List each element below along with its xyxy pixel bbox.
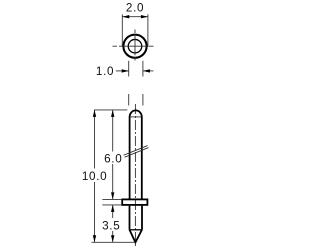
svg-text:6.0: 6.0: [104, 152, 122, 165]
dim 3.5 arrowhead top: [111, 205, 114, 212]
dim 10.0 label background: [83, 169, 107, 183]
cone tip: [130, 230, 142, 243]
extension line pin top: [94, 109, 127, 111]
cone base line: [130, 229, 143, 231]
pin dome top: [130, 110, 142, 117]
pin body left edge (upper): [129, 117, 131, 199]
top view: outer circle (pin shoulder dia 2.0): [123, 35, 146, 58]
dim 3.5 dimension line: [112, 205, 114, 242]
extension line pin tip: [92, 241, 136, 243]
svg-text:10.0: 10.0: [82, 170, 108, 183]
pin body right edge (lower): [141, 206, 143, 230]
dim 10.0 arrowhead bottom: [93, 235, 96, 242]
dim 1.0 tail right: [143, 70, 154, 72]
dim 2.0 arrowhead left: [122, 15, 129, 18]
plating boundary diagonal line 2: [125, 148, 149, 158]
dim 6.0 arrowhead bottom: [111, 192, 114, 199]
dim 2.0 extension line right: [147, 14, 149, 47]
dim 1.0 arrowhead left (points right): [122, 69, 129, 72]
top view vertical center line: [134, 30, 136, 61]
svg-text:2.0: 2.0: [126, 1, 144, 14]
top view: inner circle (pin dia 1.0): [128, 39, 142, 53]
svg-text:1.0: 1.0: [96, 65, 114, 78]
dim 1.0 extension line right: [142, 61, 144, 77]
projection line left: [128, 94, 130, 106]
dim 3.5 label background: [101, 218, 122, 231]
extension line flange top: [102, 198, 122, 200]
dim 1.0 tail left: [116, 70, 129, 72]
dim 2.0 extension line left: [121, 14, 123, 47]
dim 6.0 arrowhead top: [111, 110, 114, 117]
dim 10.0 arrowhead top: [93, 110, 96, 117]
dim 1.0 extension line left: [128, 61, 130, 77]
dim 10.0 dimension line: [94, 110, 96, 242]
dim 6.0 label background: [104, 152, 123, 165]
svg-text:3.5: 3.5: [102, 219, 120, 232]
extension line flange bottom: [102, 204, 122, 206]
dim 2.0 dimension line: [122, 16, 148, 18]
pin body right edge (upper): [141, 117, 143, 199]
plating boundary diagonal line 1: [124, 146, 148, 156]
flange: [122, 199, 147, 205]
pin dome base line: [130, 116, 142, 118]
dim 6.0 dimension line: [112, 110, 114, 199]
pin body left edge (lower): [129, 206, 131, 230]
side view pin center line: [134, 104, 136, 247]
dim 2.0 arrowhead right: [141, 15, 148, 18]
dim 3.5 arrowhead bottom: [111, 235, 114, 242]
dim 1.0 arrowhead right (points left): [143, 69, 150, 72]
projection line right: [142, 94, 144, 106]
top view horizontal center line: [113, 45, 154, 47]
